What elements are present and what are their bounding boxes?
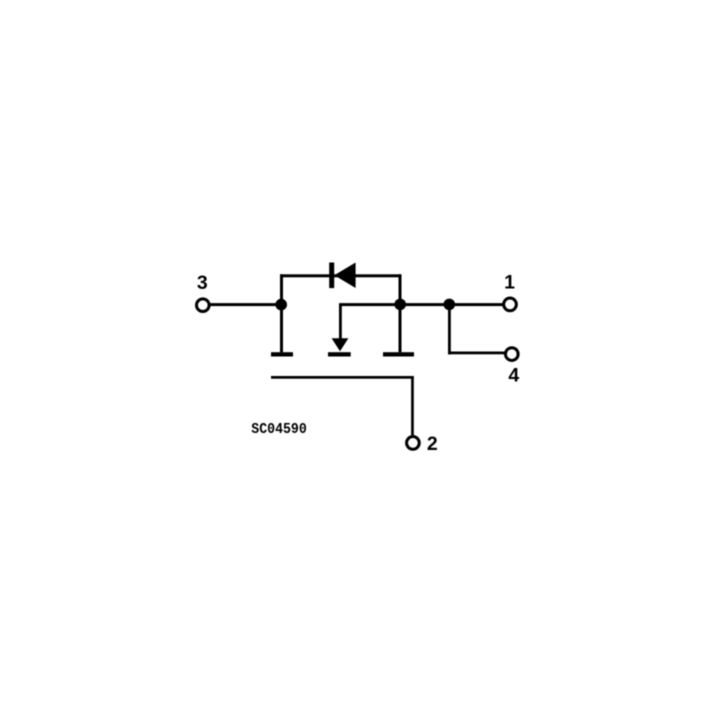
wire substrate vertical	[339, 305, 342, 341]
node terminal-4 tap (junction dot right)	[444, 299, 456, 311]
wire terminal 3 to source node	[210, 303, 283, 306]
svg-text:SC04590: SC04590	[251, 422, 306, 438]
node drain (junction dot middle)	[394, 299, 406, 311]
wire gate vertical to terminal 2	[411, 376, 414, 435]
terminal 4	[505, 348, 518, 361]
wire terminal-4 horizontal	[448, 352, 505, 355]
diode D (body diode, anode right, cathode left)	[334, 263, 355, 289]
svg-text:3: 3	[197, 272, 208, 294]
wire terminal-4 vertical drop	[448, 304, 451, 354]
wire left vertical (source node up to diode rail, down to source electrode)	[280, 274, 283, 352]
svg-text:4: 4	[508, 364, 519, 386]
svg-text:2: 2	[427, 433, 438, 455]
wire drain node to terminal 1	[400, 303, 503, 306]
svg-text:1: 1	[504, 272, 515, 294]
terminal 1	[504, 298, 517, 311]
wire substrate horizontal to drain node	[339, 303, 401, 306]
MOSFET source contact bar	[271, 352, 293, 356]
terminal 2	[407, 437, 420, 450]
wire right vertical (diode rail down to drain node and drain electrode)	[399, 274, 402, 352]
terminal 3	[197, 299, 210, 312]
node source (junction dot left)	[275, 299, 287, 311]
MOSFET drain contact bar	[383, 352, 414, 356]
MOSFET gate line	[271, 376, 414, 379]
diode cathode bar	[329, 263, 334, 289]
wire top diode rail	[280, 274, 401, 277]
MOSFET substrate contact bar	[328, 352, 351, 356]
substrate arrow (bulk connection, pointing down)	[332, 338, 349, 351]
